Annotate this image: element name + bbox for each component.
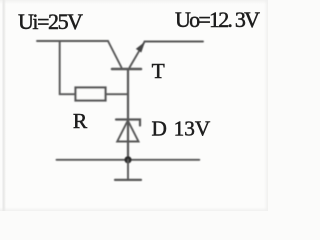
wire from R to base node — [106, 93, 129, 95]
svg-text:T: T — [152, 59, 165, 83]
wire base lead down through zener to ground rail — [127, 69, 129, 160]
junction node dot on ground rail — [124, 156, 131, 163]
wire from input down to R (left vertical) — [60, 41, 76, 94]
transistor T emitter arrowhead — [136, 42, 145, 53]
wire output net to Uo — [145, 41, 204, 43]
ground symbol stub — [127, 160, 129, 180]
resistor R body — [76, 88, 106, 101]
transistor T emitter lead — [130, 42, 145, 68]
wire collector lead of T (diagonal) — [108, 41, 122, 68]
zener diode D cathode bar with bent tip — [116, 120, 140, 126]
wire input net from Ui to collector — [37, 40, 108, 42]
transistor T base bar — [112, 68, 141, 71]
svg-text:D: D — [152, 117, 167, 141]
svg-text:13V: 13V — [174, 117, 211, 141]
svg-text:R: R — [73, 109, 88, 133]
zener diode D anode triangle — [117, 121, 138, 142]
ground rail wire — [57, 159, 200, 161]
svg-text:Ui=25V: Ui=25V — [18, 9, 83, 34]
ground symbol bar — [115, 179, 141, 181]
svg-text:Uo=12. 3V: Uo=12. 3V — [175, 7, 260, 32]
